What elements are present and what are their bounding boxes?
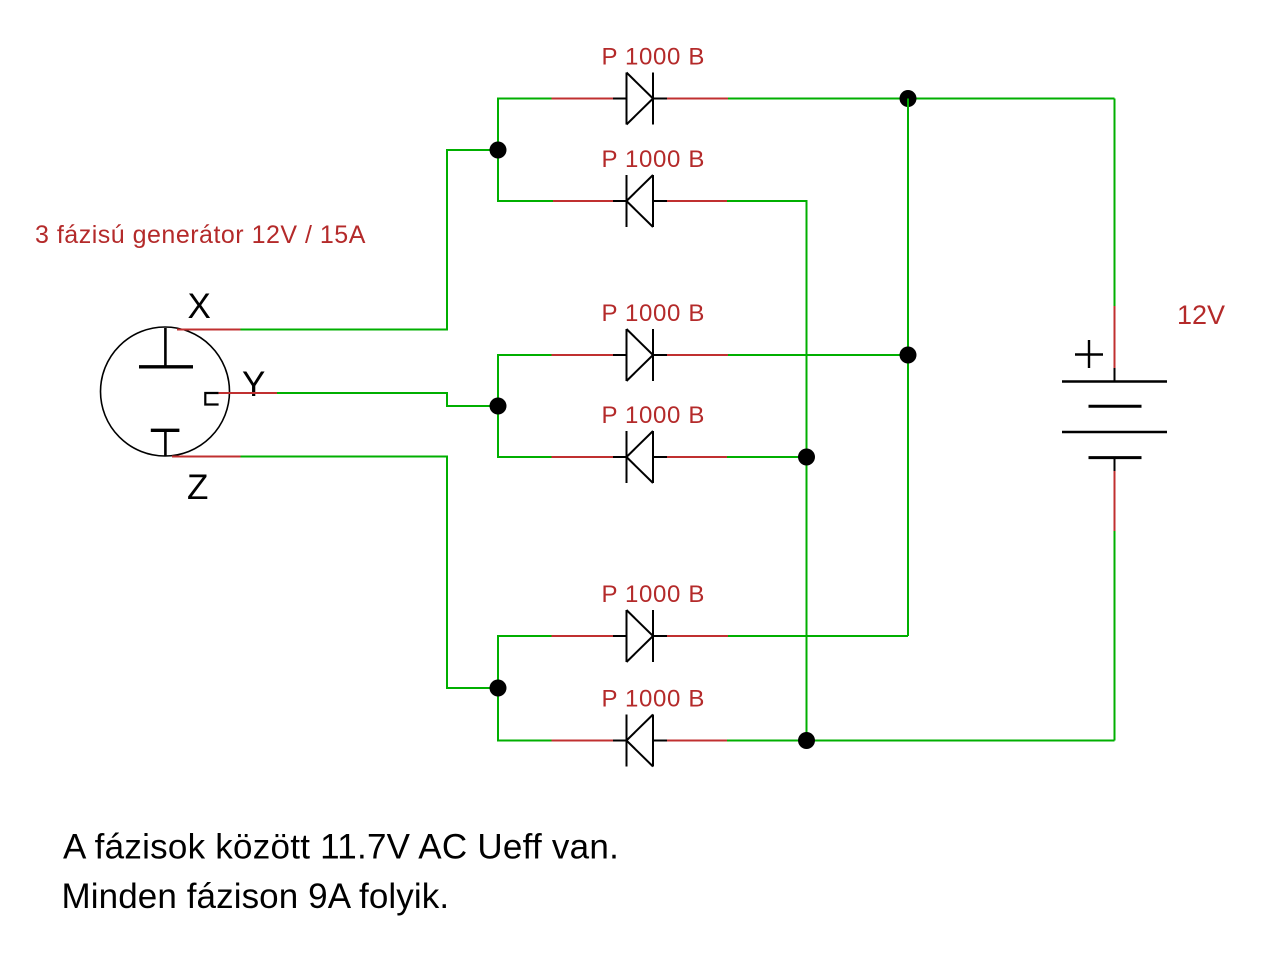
svg-text:P 1000 B: P 1000 B xyxy=(602,44,706,71)
battery BT1 plus lead black xyxy=(1114,368,1116,382)
generator G1 top winding symbol xyxy=(139,328,193,367)
svg-text:P 1000 B: P 1000 B xyxy=(602,581,706,608)
wire D6 left green xyxy=(498,688,552,741)
svg-text:Z: Z xyxy=(187,468,208,507)
svg-text:P 1000 B: P 1000 B xyxy=(602,300,706,327)
junction dot X node xyxy=(490,142,507,159)
wire X phase green xyxy=(241,150,499,330)
wire D1 cathode red xyxy=(667,98,728,100)
wire D4 anode red xyxy=(667,456,727,458)
wire D5 anode red xyxy=(552,635,614,637)
diode D3 xyxy=(613,329,667,381)
diode D6 xyxy=(613,715,667,767)
wire D1 anode red xyxy=(552,98,614,100)
wire battery minus red xyxy=(1114,471,1116,531)
junction dot minus bus middle xyxy=(798,449,815,466)
wire bottom return green xyxy=(727,740,1115,742)
wire D2 anode red xyxy=(667,200,727,202)
svg-text:P 1000 B: P 1000 B xyxy=(602,146,706,173)
wire D2 left green xyxy=(498,150,553,201)
wire D2 cathode red xyxy=(553,200,613,202)
battery BT1 plus sign xyxy=(1075,340,1103,368)
wire X phase red stub xyxy=(177,329,241,331)
wire Z phase red stub xyxy=(172,456,241,458)
wire battery plus green xyxy=(1114,99,1116,307)
wire D4 left green xyxy=(498,406,552,457)
wire D5 to plus bus green xyxy=(728,635,908,637)
junction dot minus bus bottom xyxy=(798,732,815,749)
junction dot Y node xyxy=(490,398,507,415)
wire D3 anode red xyxy=(552,354,614,356)
svg-text:A fázisok között 11.7V AC Ueff: A fázisok között 11.7V AC Ueff van. xyxy=(63,828,619,867)
diode D4 xyxy=(613,431,667,483)
wire D2 to minus bus green xyxy=(727,201,807,741)
wire D4 to minus bus green xyxy=(727,456,807,458)
diode D5 xyxy=(613,610,667,662)
wire D1 left green xyxy=(498,99,552,151)
wire D3 left green xyxy=(498,355,552,406)
svg-text:12V: 12V xyxy=(1177,300,1225,330)
svg-text:Y: Y xyxy=(242,365,265,404)
wire Y phase green xyxy=(277,393,498,406)
wire D5 left green xyxy=(498,636,552,688)
junction dot top plus bus xyxy=(900,90,917,107)
generator G1 circle xyxy=(101,327,230,456)
junction dot Z node xyxy=(490,680,507,697)
generator G1 right winding symbol xyxy=(205,393,218,405)
svg-text:P 1000 B: P 1000 B xyxy=(602,402,706,429)
wire plus bus vertical green xyxy=(907,99,909,637)
wire battery minus green xyxy=(1114,531,1116,741)
battery BT1 plate 3 long xyxy=(1062,431,1167,433)
wire D6 anode red xyxy=(667,740,727,742)
wire D5 cathode red xyxy=(667,635,728,637)
wire D3 to plus bus green xyxy=(728,354,908,356)
junction dot plus bus middle xyxy=(900,347,917,364)
battery BT1 plate 2 short xyxy=(1089,405,1142,408)
wire D4 cathode red xyxy=(552,456,614,458)
wire D3 cathode red xyxy=(667,354,728,356)
diode D2 xyxy=(613,175,667,227)
svg-text:3 fázisú generátor 12V / 15A: 3 fázisú generátor 12V / 15A xyxy=(35,221,366,249)
generator G1 bottom winding symbol xyxy=(151,430,180,456)
wire Z phase green xyxy=(241,457,499,689)
wire Y phase red stub xyxy=(219,392,277,394)
battery BT1 minus lead black xyxy=(1114,458,1116,471)
svg-text:X: X xyxy=(188,287,211,326)
wire D1 to battery plus green xyxy=(728,98,1115,100)
battery BT1 plate 4 short xyxy=(1089,456,1142,459)
battery BT1 plate 1 long xyxy=(1062,380,1167,382)
svg-text:P 1000 B: P 1000 B xyxy=(602,686,706,713)
svg-text:Minden fázison 9A folyik.: Minden fázison 9A folyik. xyxy=(62,877,450,916)
wire battery plus red xyxy=(1114,306,1116,368)
wire D6 cathode red xyxy=(552,740,614,742)
diode D1 xyxy=(613,73,667,125)
